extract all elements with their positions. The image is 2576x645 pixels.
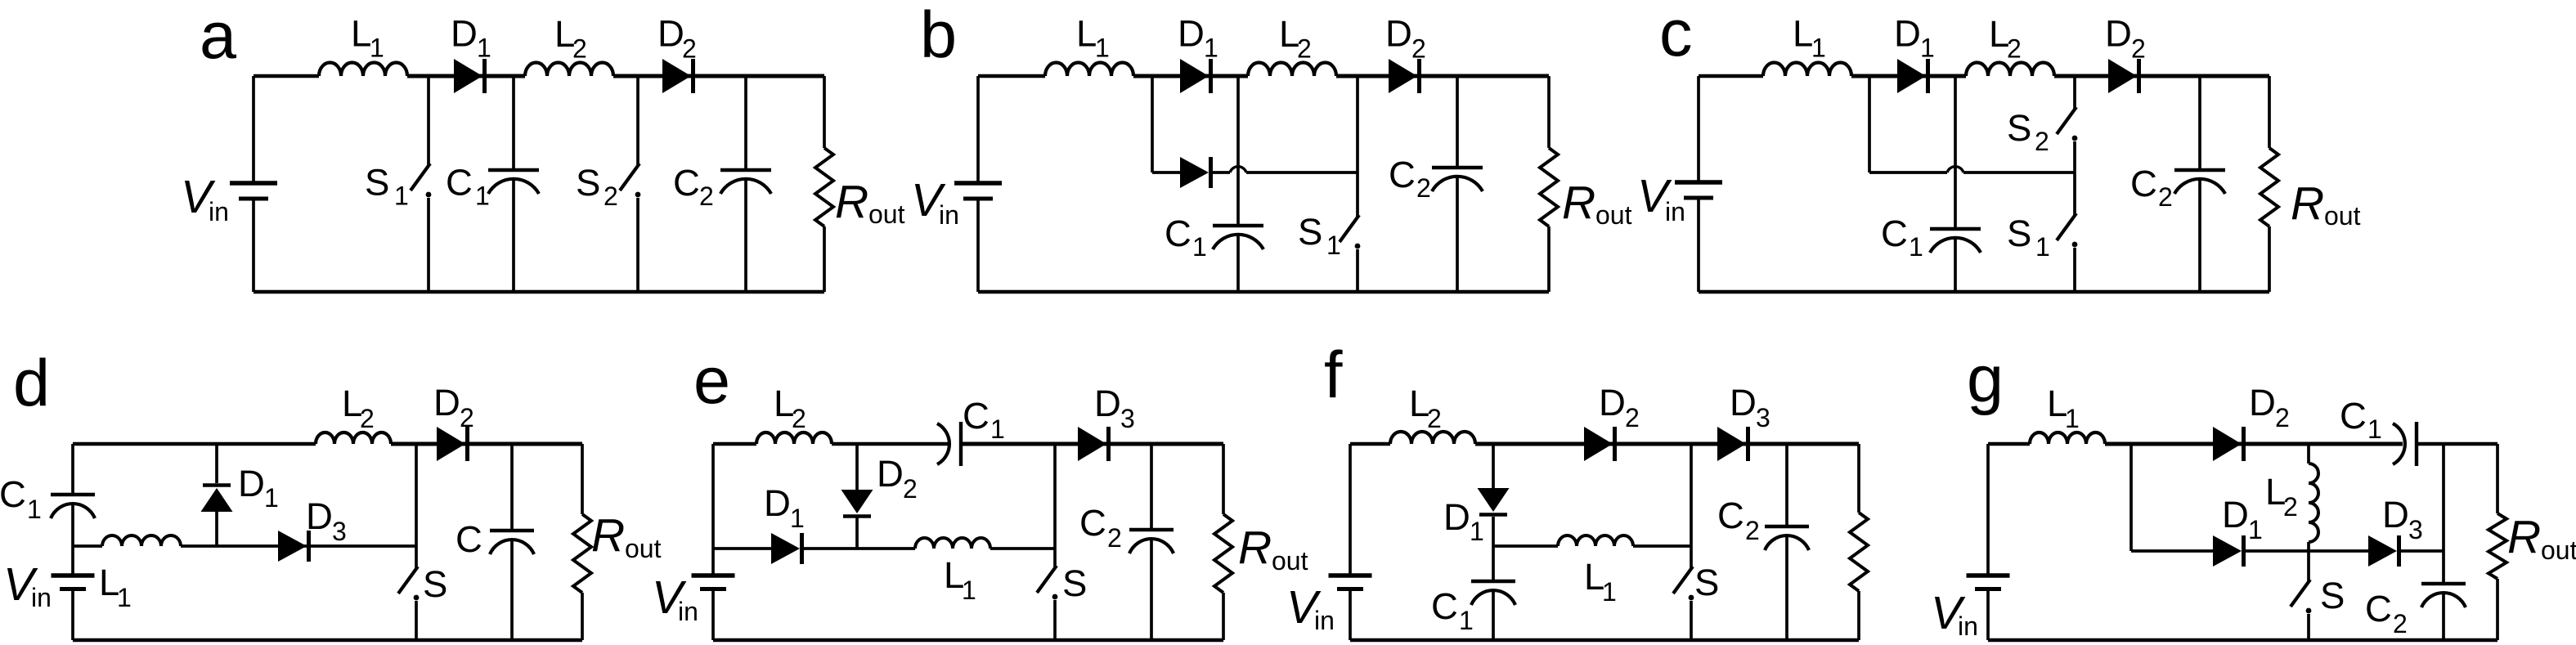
label D1 (d) — [238, 463, 279, 513]
label L2 (b) — [1279, 13, 1312, 64]
wire S1 branch a lower — [427, 198, 430, 292]
wire bottom rail e — [713, 638, 1223, 642]
wire mid f right — [1633, 544, 1691, 548]
svg-text:1: 1 — [1204, 34, 1218, 63]
svg-text:S: S — [2007, 213, 2031, 254]
inductor L2 (a) — [525, 63, 613, 76]
diode D1 (c) — [1897, 59, 1928, 93]
svg-text:in: in — [1665, 197, 1685, 226]
wire C2 branch a lower — [744, 179, 747, 292]
wire resistor branch f upper — [1857, 444, 1860, 513]
svg-text:2: 2 — [1107, 523, 1122, 553]
svg-text:C: C — [2130, 163, 2157, 204]
wire Rout branch c lower — [2268, 226, 2271, 292]
svg-text:D: D — [306, 495, 333, 537]
wire Rout branch d upper — [581, 444, 584, 514]
svg-text:3: 3 — [332, 517, 347, 546]
wire D1 branch f upper — [1492, 444, 1495, 488]
capacitor C1 (a) — [488, 170, 539, 194]
svg-text:1: 1 — [475, 181, 490, 211]
label D3 (e) — [1094, 383, 1135, 433]
capacitor C1 (f) — [1471, 581, 1515, 605]
diode D3 (g) — [2368, 535, 2399, 567]
wire Rout branch e upper — [1222, 444, 1225, 514]
switch S1 (b) — [1340, 215, 1360, 249]
label L2 (f) — [1409, 383, 1442, 433]
wire mid b to S1 — [1246, 171, 1358, 174]
svg-text:out: out — [2324, 201, 2361, 231]
wire S1 branch b lower — [1356, 249, 1359, 292]
battery Vin (g) — [1967, 576, 2010, 589]
label Rout (g) — [2507, 511, 2576, 565]
label C1 (c) — [1881, 213, 1923, 262]
wire top rail c L1-L2 — [1851, 74, 1966, 78]
wire top rail f left — [1350, 442, 1390, 446]
wire Rout branch e lower — [1222, 593, 1225, 640]
svg-text:D: D — [1599, 382, 1626, 423]
svg-text:a: a — [200, 0, 237, 73]
label D1 (a) — [451, 13, 491, 63]
label Vin (g) — [1931, 587, 1978, 641]
label C1 (f) — [1431, 585, 1474, 635]
wire mid g left — [2131, 549, 2213, 553]
wire D1-C1 branch f middle — [1492, 517, 1495, 581]
wire mid e left — [713, 547, 771, 550]
svg-text:1: 1 — [1459, 606, 1474, 635]
svg-text:out: out — [868, 199, 905, 229]
wire S branch f upper — [1690, 444, 1693, 568]
svg-text:1: 1 — [1909, 232, 1923, 262]
wire mid g right — [2399, 549, 2444, 553]
wire top rail e right — [961, 442, 1223, 446]
wire top rail b L1-L2 — [1133, 74, 1248, 78]
svg-text:C: C — [456, 518, 482, 560]
wire bottom rail f — [1350, 638, 1859, 642]
svg-text:1: 1 — [1920, 34, 1935, 63]
resistor Rout (g) — [2488, 513, 2506, 579]
svg-text:C: C — [0, 473, 26, 515]
svg-text:2: 2 — [1297, 34, 1312, 64]
label C2 (g) — [2365, 588, 2408, 638]
svg-text:R: R — [1562, 177, 1595, 229]
svg-text:D: D — [2382, 494, 2409, 535]
svg-text:1: 1 — [27, 495, 42, 524]
wire C1 branch a lower — [512, 179, 515, 292]
wire top rail c right — [2054, 74, 2269, 78]
capacitor C1 (c) — [1930, 229, 1981, 253]
wire top rail d left — [73, 442, 316, 446]
label S1 (a) — [365, 162, 409, 211]
wire left branch e upper — [711, 444, 715, 576]
svg-text:1: 1 — [1095, 34, 1110, 63]
svg-text:c: c — [1659, 0, 1693, 70]
resistor Rout (f) — [1850, 513, 1868, 591]
svg-text:f: f — [1324, 338, 1343, 412]
wire top rail b right — [1336, 74, 1549, 78]
wire top rail b left — [978, 74, 1045, 78]
capacitor C1 (d) — [51, 495, 95, 518]
wire Vin branch b lower — [976, 198, 980, 292]
svg-text:2: 2 — [2007, 34, 2022, 64]
svg-text:D: D — [2222, 494, 2249, 535]
label L2 (e) — [774, 383, 806, 433]
label Rout (b) — [1562, 177, 1632, 230]
wire mid b to hop — [1211, 171, 1230, 174]
label Vin (c) — [1637, 170, 1685, 226]
svg-text:D: D — [1443, 496, 1470, 538]
label L1 (a) — [351, 13, 384, 63]
switch S1 (c) — [2057, 213, 2077, 247]
label C2 (f) — [1717, 495, 1760, 545]
svg-text:C: C — [1881, 213, 1908, 254]
svg-text:2: 2 — [903, 474, 918, 504]
label C1 (g) — [2340, 395, 2382, 444]
svg-text:2: 2 — [360, 404, 375, 433]
svg-text:S: S — [576, 162, 600, 204]
wire C2 branch b upper — [1456, 76, 1459, 168]
label S1 (b) — [1298, 211, 1341, 260]
wire C branch d lower — [510, 540, 514, 640]
label D1 (f) — [1443, 496, 1484, 546]
label D1 (c) — [1894, 13, 1935, 63]
inductor L1 (a) — [319, 63, 407, 76]
label D1 (e) — [764, 482, 805, 533]
wire bottom rail c — [1699, 290, 2269, 293]
label D1 (g) — [2222, 494, 2263, 544]
svg-text:1: 1 — [370, 34, 384, 63]
svg-text:in: in — [1958, 611, 1978, 641]
svg-text:D: D — [657, 13, 684, 55]
svg-text:2: 2 — [1416, 173, 1431, 203]
diode D1 (d) — [201, 486, 233, 513]
svg-text:1: 1 — [2248, 515, 2263, 544]
wire Rout branch g lower — [2496, 579, 2499, 640]
svg-text:2: 2 — [2283, 492, 2298, 522]
label L1 (f) — [1584, 556, 1617, 607]
inductor L2 (f) — [1390, 432, 1475, 444]
capacitor C1 (e) — [937, 422, 961, 466]
svg-text:g: g — [1967, 343, 2004, 416]
wire Vin branch c upper — [1697, 76, 1700, 182]
wire S2 branch c upper — [2073, 76, 2076, 109]
diode D2 (c) — [2108, 59, 2139, 93]
svg-text:3: 3 — [1120, 404, 1135, 433]
wire Vin branch a upper — [252, 76, 255, 183]
capacitor C1 (b) — [1213, 226, 1263, 249]
wire left branch g lower — [1986, 589, 1990, 640]
switch S1 (a) — [411, 163, 431, 197]
wire S1 branch a upper — [427, 76, 430, 165]
diode D1 (a) — [454, 59, 485, 93]
svg-text:1: 1 — [790, 504, 805, 533]
svg-text:L: L — [351, 13, 371, 55]
svg-text:C: C — [1431, 585, 1458, 627]
svg-text:3: 3 — [2408, 515, 2423, 544]
svg-text:R: R — [591, 509, 625, 562]
label S1 (c) — [2007, 213, 2050, 262]
diode D3 (d) — [278, 531, 309, 562]
label Rout (a) — [835, 176, 905, 229]
wire Rout branch a upper — [823, 76, 826, 148]
diode D2 (e) — [841, 490, 873, 517]
label L1 (c) — [1793, 13, 1826, 63]
svg-text:1: 1 — [117, 583, 132, 612]
wire left branch d lower — [71, 589, 74, 640]
battery Vin (a) — [230, 183, 277, 199]
svg-text:in: in — [939, 200, 959, 230]
svg-text:D: D — [877, 453, 904, 495]
wire D2 branch e upper — [855, 444, 859, 490]
battery Vin (e) — [692, 576, 735, 589]
label C2 (b) — [1389, 154, 1431, 203]
battery Vin (c) — [1675, 182, 1722, 198]
diode D1 (g) — [2213, 535, 2244, 567]
wire Rout branch a lower — [823, 226, 826, 292]
diode D3 (f) — [1717, 427, 1748, 461]
wire crossover hop (b) — [1230, 167, 1246, 172]
switch S (f) — [1673, 567, 1694, 600]
label Vin (e) — [652, 571, 698, 626]
capacitor C1 (g) — [2393, 422, 2417, 466]
wire Rout branch b lower — [1547, 226, 1551, 292]
wire Rout branch g upper — [2496, 444, 2499, 513]
diode D1 (f) — [1478, 488, 1510, 515]
resistor Rout (b) — [1540, 148, 1558, 226]
svg-text:C: C — [1165, 213, 1192, 254]
svg-text:in: in — [678, 597, 698, 626]
svg-text:1: 1 — [1811, 34, 1826, 63]
capacitor C2 (c) — [2174, 170, 2225, 194]
svg-text:2: 2 — [1427, 404, 1442, 433]
svg-text:1: 1 — [1470, 517, 1484, 546]
inductor L1 (d) — [102, 535, 181, 546]
wire top rail g middle — [2105, 442, 2403, 446]
wire left branch d upper — [71, 444, 74, 495]
wire top rail a left — [254, 74, 319, 78]
svg-text:1: 1 — [990, 414, 1005, 444]
wire top rail g left — [1988, 442, 2030, 446]
label Vin (b) — [911, 174, 959, 230]
label D2 (a) — [657, 13, 697, 64]
wire bottom rail a — [254, 290, 824, 293]
wire C1 branch c upper — [1954, 76, 1957, 229]
svg-text:S: S — [1298, 211, 1322, 253]
svg-text:S: S — [1062, 562, 1087, 604]
wire D1 branch d lower — [215, 512, 218, 546]
svg-text:1: 1 — [2035, 232, 2050, 262]
svg-text:D: D — [433, 382, 460, 423]
wire mid g middle — [2244, 549, 2368, 553]
inductor L2 (g) — [2309, 464, 2318, 542]
svg-text:2: 2 — [1625, 403, 1640, 432]
svg-text:in: in — [209, 197, 229, 226]
wire mid c left — [1869, 171, 1947, 174]
wire C1 branch b upper — [1236, 76, 1240, 226]
label D2 (g) — [2249, 382, 2290, 432]
svg-text:out: out — [1595, 200, 1632, 230]
svg-text:C: C — [2340, 395, 2367, 437]
svg-text:out: out — [2541, 535, 2576, 565]
diode D2 (a) — [662, 59, 693, 93]
svg-text:out: out — [1272, 546, 1308, 576]
wire Rout branch c upper — [2268, 76, 2271, 148]
switch S (g) — [2291, 580, 2311, 613]
resistor Rout (e) — [1214, 514, 1232, 593]
svg-text:C: C — [1079, 502, 1106, 544]
diode D3 (e) — [1078, 427, 1109, 461]
wire C2 branch e upper — [1150, 444, 1153, 530]
svg-text:C: C — [1389, 154, 1416, 195]
svg-text:C: C — [2365, 588, 2392, 629]
wire node branch c (L1-D1 to mid) — [1868, 76, 1871, 172]
label C1 (d) — [0, 473, 42, 524]
wire top rail e to C1 — [832, 442, 948, 446]
label D2 (e) — [877, 453, 918, 504]
capacitor C (d) — [490, 531, 534, 554]
svg-text:D: D — [238, 463, 265, 504]
wire mid d left — [73, 544, 102, 548]
wire node branch b (L1-D1 to mid diode) — [1151, 76, 1154, 172]
svg-text:2: 2 — [792, 404, 806, 433]
svg-text:S: S — [423, 563, 447, 605]
svg-text:1: 1 — [2367, 414, 2382, 444]
resistor Rout (d) — [573, 514, 591, 593]
wire C2 branch g upper — [2442, 444, 2445, 584]
wire mid e middle — [802, 547, 915, 550]
svg-text:D: D — [1094, 383, 1121, 424]
label D2 (f) — [1599, 382, 1640, 432]
wire S2 branch a lower — [636, 198, 640, 292]
svg-text:2: 2 — [2158, 182, 2173, 212]
wire top rail d right — [391, 442, 582, 446]
svg-text:2: 2 — [2131, 34, 2146, 64]
svg-text:2: 2 — [699, 181, 714, 211]
svg-text:L: L — [1076, 13, 1097, 55]
label Vin (d) — [3, 558, 52, 612]
label Vin (f) — [1286, 581, 1335, 635]
svg-text:1: 1 — [1192, 232, 1207, 262]
wire bottom rail g — [1988, 638, 2497, 642]
wire C2 branch f lower — [1785, 535, 1788, 640]
inductor L1 (b) — [1045, 63, 1133, 76]
inductor L1 (g) — [2030, 432, 2105, 444]
label L2 (a) — [554, 13, 587, 64]
svg-text:C: C — [673, 162, 700, 204]
capacitor C2 (g) — [2421, 584, 2466, 607]
svg-text:R: R — [1238, 522, 1272, 574]
capacitor C2 (f) — [1765, 526, 1809, 550]
label C1 (b) — [1165, 213, 1207, 262]
diode D2 (g) — [2213, 427, 2244, 461]
label L1 (e) — [944, 554, 976, 605]
label Rout (e) — [1238, 522, 1308, 576]
svg-text:2: 2 — [460, 403, 474, 432]
wire left branch e lower — [711, 589, 715, 640]
wire left branch d middle — [71, 504, 74, 576]
label D1 (b) — [1178, 13, 1218, 63]
wire S1 branch c lower — [2073, 248, 2076, 292]
wire D1 branch d upper — [215, 444, 218, 483]
wire top rail a right — [613, 74, 824, 78]
wire C2 branch a upper — [744, 76, 747, 170]
inductor L1 (e) — [915, 538, 990, 549]
label Vin (a) — [181, 171, 229, 226]
svg-text:1: 1 — [477, 34, 491, 63]
capacitor C2 (a) — [720, 170, 771, 194]
wire Vin branch a lower — [252, 198, 255, 292]
svg-text:1: 1 — [2065, 404, 2080, 433]
wire C2 branch b lower — [1456, 177, 1459, 292]
capacitor C2 (e) — [1129, 530, 1174, 553]
wire D2 branch e lower — [855, 517, 859, 549]
svg-text:b: b — [920, 0, 957, 72]
svg-text:2: 2 — [604, 181, 618, 211]
svg-text:D: D — [1894, 13, 1921, 55]
svg-text:D: D — [1385, 13, 1412, 55]
svg-text:S: S — [1694, 562, 1719, 603]
svg-text:1: 1 — [264, 483, 279, 513]
label L2 (d) — [342, 383, 375, 433]
wire Rout branch b upper — [1547, 76, 1551, 148]
wire C2 branch c lower — [2198, 179, 2201, 292]
label D3 (f) — [1730, 382, 1770, 432]
svg-text:2: 2 — [2035, 127, 2049, 156]
label D3 (g) — [2382, 494, 2423, 544]
switch S (e) — [1037, 566, 1057, 599]
label L1 (d) — [99, 562, 132, 612]
wire left branch f upper — [1349, 444, 1352, 576]
svg-text:out: out — [625, 534, 662, 563]
wire S branch e upper — [1053, 444, 1057, 567]
label D2 (b) — [1385, 13, 1426, 64]
wire C2 branch g lower — [2442, 593, 2445, 640]
svg-text:1: 1 — [962, 576, 976, 605]
svg-text:1: 1 — [394, 181, 409, 211]
svg-text:D: D — [1730, 382, 1757, 423]
wire mid f left — [1493, 544, 1558, 548]
inductor L2 (d) — [316, 432, 391, 444]
label C2 (c) — [2130, 163, 2173, 212]
wire C2 branch e lower — [1150, 539, 1153, 640]
resistor Rout (c) — [2260, 148, 2278, 226]
wire mid d right — [181, 544, 416, 548]
wire top rail f right — [1475, 442, 1859, 446]
svg-text:2: 2 — [2275, 403, 2290, 432]
wire bottom rail b — [978, 290, 1549, 293]
svg-text:2: 2 — [1745, 516, 1760, 545]
wire bottom rail d — [73, 638, 582, 642]
wire left branch g upper — [1986, 444, 1990, 576]
diode (b mid, unlabeled) — [1180, 157, 1211, 188]
wire S branch d lower — [415, 601, 418, 640]
label L1 (g) — [2047, 383, 2080, 433]
inductor L1 (c) — [1763, 63, 1851, 76]
inductor L1 (f) — [1558, 535, 1633, 546]
inductor L2 (c) — [1966, 63, 2054, 76]
svg-text:R: R — [2291, 177, 2324, 230]
label D2 (c) — [2105, 13, 2146, 64]
svg-text:D: D — [451, 13, 478, 55]
label L1 (b) — [1076, 13, 1110, 63]
wire L2-S branch g middle — [2307, 542, 2310, 581]
switch S (d) — [398, 567, 419, 600]
svg-text:D: D — [764, 482, 791, 524]
wire top rail g right — [2417, 442, 2497, 446]
wire L2 branch g upper — [2307, 444, 2310, 464]
svg-text:S: S — [365, 162, 389, 204]
inductor L2 (e) — [756, 432, 832, 444]
capacitor C2 (b) — [1432, 168, 1483, 191]
